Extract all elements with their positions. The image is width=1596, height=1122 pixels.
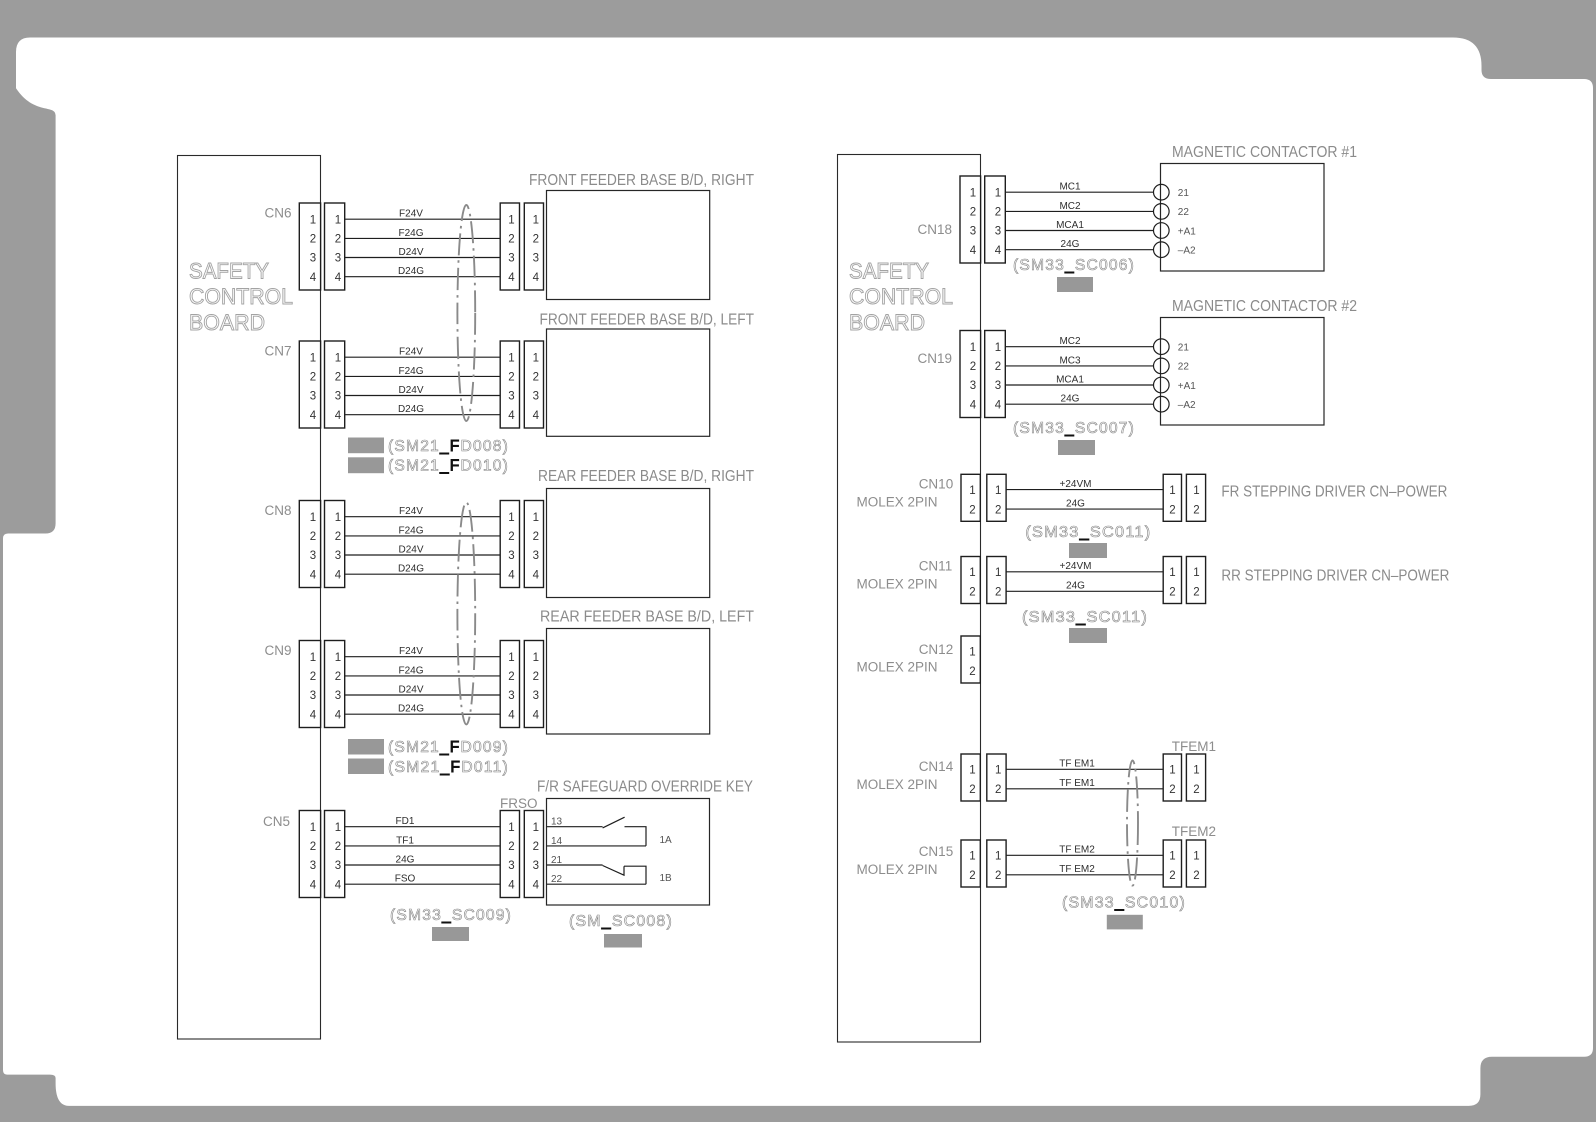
label 1B: [660, 873, 673, 884]
svg-text:1: 1: [508, 512, 514, 524]
svg-text:4: 4: [533, 569, 540, 581]
svg-text:CONTROL: CONTROL: [189, 284, 293, 309]
svg-text:MC3: MC3: [1059, 355, 1081, 366]
svg-text:3: 3: [970, 226, 976, 238]
wire D24V (CN7 pin 3): [345, 385, 501, 396]
svg-text:2: 2: [1193, 587, 1199, 599]
harness label ((SM33_SC011)): [1022, 609, 1148, 626]
svg-text:–A2: –A2: [1178, 400, 1196, 411]
contactor #1 terminal &#8211;A2: [1154, 242, 1197, 258]
svg-text:CONTROL: CONTROL: [849, 284, 953, 309]
switch blade 1B: [603, 866, 624, 876]
svg-text:MCA1: MCA1: [1056, 374, 1084, 385]
svg-text:4: 4: [508, 410, 515, 422]
svg-text:CN19: CN19: [917, 351, 952, 366]
harness label ((SM21_FD011)): [388, 759, 509, 776]
svg-text:24G: 24G: [1066, 581, 1085, 592]
svg-text:2: 2: [310, 372, 316, 384]
svg-text:3: 3: [335, 253, 341, 265]
connector CN10-DEST housing B: [1186, 474, 1205, 521]
wire TF EM2 (CN15 pin 2): [1006, 864, 1163, 875]
svg-text:4: 4: [970, 245, 977, 257]
connector FRSO housing B: [524, 811, 543, 898]
svg-text:4: 4: [335, 272, 342, 284]
svg-text:1: 1: [1169, 851, 1175, 863]
svg-text:F24V: F24V: [399, 646, 423, 657]
svg-text:4: 4: [310, 879, 317, 891]
node CN19 label: [917, 351, 952, 366]
svg-text:2: 2: [969, 666, 975, 678]
svg-text:2: 2: [310, 531, 316, 543]
wire FD1 (CN5 pin 1): [345, 816, 501, 827]
redacted tag under (SM33_SC009): [432, 927, 469, 941]
cable bundle ellipse (CN8/CN9 harness): [457, 502, 475, 724]
svg-text:2: 2: [533, 531, 539, 543]
svg-text:3: 3: [335, 860, 341, 872]
magnetic contactor #2 box: [1161, 298, 1358, 425]
svg-text:F24V: F24V: [399, 209, 423, 220]
svg-text:CN6: CN6: [264, 206, 291, 221]
wire MC2 (CN19 pin 1): [1005, 336, 1153, 347]
svg-text:2: 2: [508, 372, 514, 384]
svg-text:2: 2: [310, 671, 316, 683]
svg-text:1: 1: [970, 187, 976, 199]
svg-text:F24G: F24G: [398, 366, 423, 377]
svg-text:MOLEX 2PIN: MOLEX 2PIN: [857, 660, 938, 675]
connector CN14 housing B: [987, 754, 1006, 801]
svg-text:1: 1: [310, 352, 316, 364]
svg-text:2: 2: [995, 361, 1001, 373]
svg-text:CN8: CN8: [264, 503, 291, 518]
svg-text:14: 14: [551, 836, 563, 847]
wire +24VM (CN11 pin 1): [1006, 561, 1163, 572]
svg-text:2: 2: [508, 841, 514, 853]
svg-text:MOLEX 2PIN: MOLEX 2PIN: [857, 577, 938, 592]
svg-text:D24V: D24V: [398, 544, 423, 555]
svg-text:2: 2: [969, 870, 975, 882]
svg-text:4: 4: [533, 709, 540, 721]
wire D24G (CN8 pin 4): [345, 564, 501, 575]
svg-text:F24G: F24G: [398, 525, 423, 536]
connector CN7 housing A: [299, 341, 320, 428]
redacted tag (SM21_FD009): [348, 739, 384, 755]
magnetic contactor #1 box: [1161, 144, 1358, 271]
svg-text:1: 1: [995, 765, 1001, 777]
svg-text:4: 4: [335, 410, 342, 422]
svg-text:2: 2: [335, 234, 341, 246]
redacted tag under (SM33_SC011) lower: [1069, 628, 1107, 643]
svg-text:4: 4: [508, 272, 515, 284]
svg-text:3: 3: [995, 226, 1001, 238]
switch blade 1A: [603, 817, 625, 828]
svg-text:1: 1: [508, 214, 514, 226]
redacted tag under (SM33_SC010): [1107, 915, 1143, 930]
node CN5 label: [263, 814, 290, 829]
wire F24V (CN6 pin 1): [345, 209, 501, 220]
wire 24G (CN10 pin 2): [1006, 499, 1163, 510]
connector CN15 housing B: [987, 840, 1006, 887]
redacted tag under (SM33_SC007): [1058, 440, 1095, 455]
svg-text:FRONT FEEDER BASE B/D, LEFT: FRONT FEEDER BASE B/D, LEFT: [540, 312, 755, 329]
node CN12 label: [857, 642, 954, 675]
svg-text:SAFETY: SAFETY: [849, 259, 929, 284]
key contact pin 14: [547, 836, 647, 847]
svg-text:MCA1: MCA1: [1056, 220, 1084, 231]
contactor #2 terminal &#8211;A2: [1154, 396, 1197, 412]
svg-text:2: 2: [533, 841, 539, 853]
svg-text:(SM33_SC007): (SM33_SC007): [1013, 420, 1135, 437]
svg-text:+A1: +A1: [1178, 381, 1197, 392]
connector TFEM2 housing A: [1163, 840, 1181, 887]
svg-text:(SM33_SC011): (SM33_SC011): [1022, 609, 1148, 626]
svg-text:TF EM1: TF EM1: [1059, 759, 1095, 770]
harness label ((SM33_SC006)): [1013, 257, 1135, 274]
svg-text:2: 2: [995, 587, 1001, 599]
svg-text:3: 3: [970, 380, 976, 392]
svg-text:F24V: F24V: [399, 347, 423, 358]
svg-text:1: 1: [310, 214, 316, 226]
svg-text:2: 2: [970, 207, 976, 219]
key contact pin 21: [547, 855, 603, 866]
svg-text:FRSO: FRSO: [500, 796, 538, 811]
svg-text:1: 1: [1193, 765, 1199, 777]
wire F24G (CN7 pin 2): [345, 366, 501, 377]
svg-text:1: 1: [1169, 485, 1175, 497]
harness label ((SM33_SC010)): [1062, 895, 1186, 912]
wire FSO (CN5 pin 4): [345, 874, 501, 885]
svg-text:D24G: D24G: [398, 266, 424, 277]
svg-text:1: 1: [969, 851, 975, 863]
key contact pin 22: [547, 874, 647, 885]
svg-text:(SM33_SC006): (SM33_SC006): [1013, 257, 1135, 274]
wire TF1 (CN5 pin 2): [345, 835, 501, 846]
connector CN6-DEST housing B: [524, 203, 543, 290]
svg-text:CN7: CN7: [264, 344, 291, 359]
svg-text:3: 3: [533, 550, 539, 562]
wire MC3 (CN19 pin 2): [1005, 355, 1153, 366]
connector CN18 housing B: [985, 176, 1006, 263]
svg-text:3: 3: [335, 550, 341, 562]
connector FRSO housing A: [500, 811, 519, 898]
connector TFEM1 housing A: [1163, 754, 1181, 801]
svg-text:RR STEPPING DRIVER CN–POWER: RR STEPPING DRIVER CN–POWER: [1221, 568, 1449, 585]
svg-text:F24V: F24V: [399, 506, 423, 517]
cable bundle ellipse (CN6/CN7 harness): [457, 205, 475, 421]
node CN9 label: [264, 643, 291, 658]
svg-text:1: 1: [310, 512, 316, 524]
svg-text:2: 2: [335, 841, 341, 853]
svg-text:24G: 24G: [396, 854, 415, 865]
feeder board box: REAR FEEDER BASE B/D, RIGHT: [538, 468, 754, 598]
svg-text:21: 21: [1178, 188, 1190, 199]
redacted tag (SM21_FD008): [348, 438, 384, 454]
svg-text:22: 22: [1178, 207, 1190, 218]
svg-text:CN12: CN12: [919, 642, 954, 657]
connector CN9 housing A: [299, 641, 320, 728]
svg-text:FR STEPPING DRIVER CN–POWER: FR STEPPING DRIVER CN–POWER: [1221, 484, 1447, 501]
svg-text:MC2: MC2: [1059, 201, 1081, 212]
connector CN7-DEST housing A: [500, 341, 519, 428]
FR stepping driver label: [1221, 484, 1447, 501]
connector CN18 housing A: [960, 176, 981, 263]
redacted tag under (SM_SC008): [604, 934, 642, 948]
svg-text:(SM_SC008): (SM_SC008): [569, 913, 673, 930]
svg-text:2: 2: [335, 372, 341, 384]
svg-text:3: 3: [508, 253, 514, 265]
wire D24G (CN9 pin 4): [345, 704, 501, 715]
svg-text:BOARD: BOARD: [849, 310, 925, 335]
node CN15 label: [857, 844, 954, 877]
svg-text:4: 4: [310, 272, 317, 284]
svg-text:D24V: D24V: [398, 385, 423, 396]
svg-text:TF1: TF1: [396, 835, 414, 846]
svg-text:1: 1: [1193, 851, 1199, 863]
connector CN11 housing B: [987, 557, 1006, 604]
contactor #2 terminal 22: [1154, 358, 1190, 374]
svg-text:3: 3: [335, 391, 341, 403]
feeder board box: FRONT FEEDER BASE B/D, RIGHT: [529, 172, 754, 300]
wire D24G (CN6 pin 4): [345, 266, 501, 277]
svg-text:3: 3: [533, 391, 539, 403]
svg-text:4: 4: [533, 272, 540, 284]
svg-text:4: 4: [508, 709, 515, 721]
svg-text:1: 1: [508, 652, 514, 664]
svg-text:REAR FEEDER BASE B/D, LEFT: REAR FEEDER BASE B/D, LEFT: [540, 609, 754, 626]
svg-text:MAGNETIC CONTACTOR #2: MAGNETIC CONTACTOR #2: [1172, 298, 1357, 315]
svg-text:TF EM2: TF EM2: [1059, 845, 1095, 856]
connector CN10-DEST housing A: [1163, 474, 1181, 521]
wire D24V (CN8 pin 3): [345, 544, 501, 555]
svg-text:1: 1: [1169, 567, 1175, 579]
svg-text:1: 1: [335, 214, 341, 226]
svg-text:3: 3: [508, 690, 514, 702]
connector CN11-DEST housing B: [1186, 557, 1205, 604]
svg-text:2: 2: [1193, 504, 1199, 516]
svg-text:1B: 1B: [660, 873, 673, 884]
svg-text:4: 4: [310, 569, 317, 581]
svg-text:1: 1: [970, 342, 976, 354]
svg-text:D24G: D24G: [398, 704, 424, 715]
svg-text:4: 4: [508, 879, 515, 891]
svg-text:CN15: CN15: [919, 844, 954, 859]
harness label ((SM21_FD010)): [388, 458, 509, 475]
svg-text:FRONT FEEDER BASE B/D, RIGHT: FRONT FEEDER BASE B/D, RIGHT: [529, 172, 754, 189]
connector CN8 housing B: [325, 501, 345, 588]
wire F24G (CN8 pin 2): [345, 525, 501, 536]
contactor #1 terminal 22: [1154, 204, 1190, 220]
svg-text:F24G: F24G: [398, 228, 423, 239]
svg-text:21: 21: [1178, 343, 1190, 354]
harness label ((SM33_SC009)): [390, 907, 512, 924]
svg-text:(SM21_FD011): (SM21_FD011): [388, 759, 509, 776]
wire 24G (CN11 pin 2): [1006, 581, 1163, 592]
RR stepping driver label: [1221, 568, 1449, 585]
wire F24V (CN9 pin 1): [345, 646, 501, 657]
svg-text:3: 3: [508, 391, 514, 403]
connector CN15 housing A: [961, 840, 980, 887]
connector CN19 housing B: [985, 331, 1006, 418]
wire MC1 (CN18 pin 1): [1005, 182, 1153, 193]
svg-text:1: 1: [533, 214, 539, 226]
svg-text:1: 1: [508, 352, 514, 364]
connector CN7 housing B: [325, 341, 345, 428]
svg-text:3: 3: [310, 253, 316, 265]
connector CN5 housing A: [299, 811, 320, 898]
svg-text:2: 2: [969, 504, 975, 516]
svg-text:(SM21_FD008): (SM21_FD008): [388, 438, 509, 455]
connector CN9-DEST housing A: [500, 641, 519, 728]
wire D24V (CN6 pin 3): [345, 247, 501, 258]
label 1A: [660, 835, 673, 846]
svg-text:1: 1: [533, 352, 539, 364]
svg-text:2: 2: [995, 870, 1001, 882]
svg-text:(SM33_SC011): (SM33_SC011): [1025, 524, 1151, 541]
svg-text:2: 2: [310, 841, 316, 853]
svg-text:F/R SAFEGUARD OVERRIDE KEY: F/R SAFEGUARD OVERRIDE KEY: [537, 779, 753, 796]
svg-text:13: 13: [551, 817, 563, 828]
key contact pin 13: [547, 817, 603, 828]
svg-text:TF EM1: TF EM1: [1059, 778, 1095, 789]
node CN8 label: [264, 503, 291, 518]
svg-text:CN11: CN11: [919, 559, 953, 574]
svg-text:3: 3: [508, 860, 514, 872]
svg-text:CN10: CN10: [919, 477, 954, 492]
svg-text:4: 4: [508, 569, 515, 581]
svg-text:1: 1: [995, 187, 1001, 199]
harness label ((SM21_FD009)): [388, 739, 509, 756]
svg-text:D24G: D24G: [398, 404, 424, 415]
redacted tag under (SM33_SC011) upper: [1069, 543, 1107, 558]
svg-text:2: 2: [508, 531, 514, 543]
svg-text:2: 2: [1193, 870, 1199, 882]
svg-text:2: 2: [995, 504, 1001, 516]
contact 1A bracket: [625, 827, 647, 846]
svg-text:2: 2: [533, 234, 539, 246]
svg-text:+24VM: +24VM: [1060, 561, 1092, 572]
feeder board box: REAR FEEDER BASE B/D, LEFT: [540, 609, 754, 735]
harness label ((SM33_SC011)): [1025, 524, 1151, 541]
svg-text:1: 1: [1193, 485, 1199, 497]
connector CN7-DEST housing B: [524, 341, 543, 428]
svg-text:TFEM2: TFEM2: [1172, 824, 1216, 839]
connector CN5 housing B: [325, 811, 345, 898]
svg-text:(SM33_SC009): (SM33_SC009): [390, 907, 512, 924]
wire +24VM (CN10 pin 1): [1006, 479, 1163, 490]
svg-text:4: 4: [995, 245, 1002, 257]
svg-text:1: 1: [1193, 567, 1199, 579]
svg-text:3: 3: [335, 690, 341, 702]
svg-text:3: 3: [508, 550, 514, 562]
svg-text:+A1: +A1: [1178, 226, 1197, 237]
contactor #2 terminal +A1: [1154, 377, 1197, 393]
connector CN11-DEST housing A: [1163, 557, 1181, 604]
redacted tag (SM21_FD010): [348, 457, 384, 473]
svg-text:MOLEX 2PIN: MOLEX 2PIN: [857, 777, 938, 792]
svg-text:1: 1: [310, 652, 316, 664]
connector CN9-DEST housing B: [524, 641, 543, 728]
connector CN14 housing A: [961, 754, 980, 801]
svg-text:MC1: MC1: [1059, 182, 1081, 193]
svg-text:2: 2: [969, 784, 975, 796]
wire D24G (CN7 pin 4): [345, 404, 501, 415]
connector TFEM1 housing B: [1186, 754, 1205, 801]
svg-text:REAR FEEDER BASE B/D, RIGHT: REAR FEEDER BASE B/D, RIGHT: [538, 468, 754, 485]
harness label ((SM33_SC007)): [1013, 420, 1135, 437]
svg-text:CN9: CN9: [264, 643, 291, 658]
wire TF EM1 (CN14 pin 1): [1006, 759, 1163, 770]
connector CN9 housing B: [325, 641, 345, 728]
svg-text:3: 3: [533, 690, 539, 702]
cable bundle ellipse (CN14/CN15 harness): [1127, 760, 1138, 885]
svg-text:4: 4: [335, 569, 342, 581]
svg-text:1: 1: [969, 567, 975, 579]
connector CN12 housing A: [961, 636, 980, 683]
wire D24V (CN9 pin 3): [345, 684, 501, 695]
connector CN6 housing B: [325, 203, 345, 290]
svg-text:3: 3: [310, 860, 316, 872]
svg-text:–A2: –A2: [1178, 246, 1196, 257]
svg-text:22: 22: [551, 874, 563, 885]
svg-text:+24VM: +24VM: [1060, 479, 1092, 490]
connector TFEM1 label: [1172, 739, 1216, 754]
svg-text:2: 2: [335, 531, 341, 543]
node CN11 label: [857, 559, 953, 592]
svg-text:1: 1: [335, 822, 341, 834]
svg-text:3: 3: [533, 253, 539, 265]
svg-text:2: 2: [1193, 784, 1199, 796]
safety control board (left): [178, 156, 321, 1040]
wire F24V (CN7 pin 1): [345, 347, 501, 358]
harness label ((SM21_FD008)): [388, 438, 509, 455]
svg-text:D24G: D24G: [398, 564, 424, 575]
connector CN10 housing B: [987, 474, 1006, 521]
svg-text:(SM21_FD010): (SM21_FD010): [388, 458, 509, 475]
connector TFEM2 housing B: [1186, 840, 1205, 887]
svg-text:2: 2: [533, 671, 539, 683]
svg-text:1: 1: [335, 352, 341, 364]
svg-text:1: 1: [969, 765, 975, 777]
contactor #2 terminal 21: [1154, 339, 1190, 355]
svg-text:4: 4: [533, 879, 540, 891]
svg-text:TFEM1: TFEM1: [1172, 739, 1216, 754]
svg-text:1: 1: [335, 512, 341, 524]
wire 24G (CN19 pin 4): [1005, 394, 1153, 405]
svg-text:2: 2: [335, 671, 341, 683]
contact 1B bracket: [624, 866, 646, 884]
svg-text:24G: 24G: [1066, 499, 1085, 510]
svg-text:F24G: F24G: [398, 665, 423, 676]
svg-text:1: 1: [969, 647, 975, 659]
svg-text:1: 1: [995, 567, 1001, 579]
svg-text:4: 4: [970, 399, 977, 411]
svg-text:MOLEX 2PIN: MOLEX 2PIN: [857, 495, 938, 510]
svg-text:MAGNETIC CONTACTOR #1: MAGNETIC CONTACTOR #1: [1172, 144, 1357, 161]
svg-text:3: 3: [533, 860, 539, 872]
redacted tag under (SM33_SC006): [1057, 277, 1093, 292]
connector CN6-DEST housing A: [500, 203, 519, 290]
svg-text:22: 22: [1178, 362, 1190, 373]
svg-text:2: 2: [508, 234, 514, 246]
svg-text:1: 1: [995, 342, 1001, 354]
svg-text:CN18: CN18: [917, 222, 952, 237]
svg-text:D24V: D24V: [398, 684, 423, 695]
wire TF EM2 (CN15 pin 1): [1006, 845, 1163, 856]
svg-text:3: 3: [310, 690, 316, 702]
svg-text:2: 2: [533, 372, 539, 384]
svg-text:1: 1: [310, 822, 316, 834]
svg-text:2: 2: [508, 671, 514, 683]
svg-text:24G: 24G: [1061, 239, 1080, 250]
